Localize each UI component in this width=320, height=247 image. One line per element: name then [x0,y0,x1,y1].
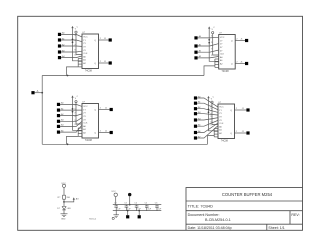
capacitor C2 [114,205,118,211]
svg-text:VCC: VCC [220,37,225,39]
wire U4 input 7 [197,123,218,132]
svg-text:VCC: VCC [83,37,88,39]
IC U3 pin name labels [83,106,96,134]
input port square U4-I2 [194,102,197,105]
power flag dot [128,193,131,196]
output port square U2-O2 [245,62,248,65]
wire U4 output 1 [235,109,247,111]
wire tap to net arrow [64,199,74,202]
title block outline [186,188,303,231]
output port square U4-O2 [246,131,249,134]
wire G1 to bottom rail [127,211,129,216]
wire U2 input 2 [198,44,219,46]
horizontal bus wire to U1/U2 row [42,75,204,77]
wire U3 output 1 [99,109,110,111]
input port square U4-I8 [194,136,197,139]
input port square U1-I3 [58,44,61,47]
junction dots on power wire U1 [72,38,74,40]
IC U4 body [218,104,235,139]
IC U2 pin name labels [220,37,233,65]
wire U1 input 1 [61,34,82,36]
svg-text:Document Number:: Document Number: [188,213,220,217]
IC U1 pin name labels [83,37,96,65]
title block sheet divider [266,224,268,230]
power arrow VCC above U3 [73,97,83,131]
ground port square G2 [138,215,141,218]
svg-text:LED: LED [67,208,72,210]
title block row divider 1 [186,200,303,202]
junction flag wire / top rail [129,204,131,206]
output port square U4-O1 [246,108,249,111]
wire VCC to resistor R1 [63,187,65,195]
wire U2 input 3 [198,50,219,52]
wire U4 input 5 [197,118,218,120]
node A port square [31,91,34,94]
ground symbol (cap bank) [115,211,117,215]
wire U3 input 3 [60,114,82,116]
junction G2 / rail [138,210,140,212]
junction port A / bus [41,92,43,94]
net arrow head [73,197,75,199]
top rail wire (VCC) [113,204,162,206]
input port square U4-I1 [194,96,197,99]
power arrow VCC above U1 [73,27,83,61]
wire U1 bottom pin to bus [67,67,79,76]
capacitor C3 [125,205,129,211]
vertical bus wire net A [41,76,43,145]
input port square U3-I2 [57,109,60,112]
svg-text:Date: 11/18/2011 03:48:04p: Date: 11/18/2011 03:48:04p [188,226,232,230]
svg-text:VCC: VCC [111,191,116,193]
horizontal bus wire to U3/U4 row [42,143,207,145]
output port square U3-O2 [110,131,113,134]
svg-text:CLK: CLK [219,123,224,125]
input port square U2-I2 [194,44,197,47]
diode D1 (LED) [62,207,66,210]
wire D1 to ground [63,210,65,214]
capacitor C4 [135,205,139,211]
capacitor C6 [155,205,159,211]
wire U1 output 2 [99,62,109,64]
input port square U2-I4 [194,56,197,59]
junction U1 drop on bus [67,75,69,77]
svg-text:74C08: 74C08 [221,139,229,142]
wire U1 input 3 [61,45,82,47]
wire G2 to bottom rail [138,211,140,216]
input port square U1-I1 [58,33,61,36]
wire U4 input 1 [197,98,218,107]
wire U4 input 3 [197,109,218,113]
IC U2 body [219,35,236,70]
svg-text:CLK: CLK [220,54,225,56]
wire U3 input 2 [60,109,82,111]
wire power flag to rail [129,196,131,204]
input port square U2-I1 [194,36,197,39]
wire U3 bottom pin to bus [67,136,79,144]
ground symbol (LED branch) [61,213,68,215]
input port square U4-I3 [194,107,197,110]
IC U4 bottom pin stubs [214,129,218,137]
wire U3 input 1 [60,104,82,106]
power port circle (LED branch) [62,184,65,187]
svg-text:Sheet: 1/1: Sheet: 1/1 [268,226,284,230]
IC U4 pin name labels [219,107,232,135]
wire U2 output 2 [235,63,245,65]
input port square U4-I6 [194,125,197,128]
wire R1 to D1 [63,199,65,206]
junction dots on power wire U3 [72,108,74,110]
bottom rail wire (GND) [113,210,162,212]
junction tap to net arrow [63,201,65,203]
power arrow VCC above U2 [209,28,219,62]
wire U4 input 6 [197,121,218,127]
ground port square G1 [126,215,129,218]
svg-text:GND: GND [61,219,66,221]
IC U3 bottom pin stubs [78,128,82,136]
wire U3 input 6 [60,126,82,133]
input port square U4-I7 [194,131,197,134]
svg-text:74C08: 74C08 [85,69,93,72]
svg-text:TITLE: 7CB4D: TITLE: 7CB4D [188,203,213,208]
wire U4 input 4 [197,114,218,115]
wire U4 input 8 [197,126,218,138]
junction U3 drop on bus [67,143,69,145]
input port square U3-I4 [57,120,60,123]
power port circle above U2 [212,31,214,33]
capacitor C5 [145,205,149,211]
sheet border frame [18,16,303,230]
svg-text:74C08: 74C08 [222,70,230,73]
IC U1 bottom pin stubs [78,59,82,67]
junction dots on power wire U4 [208,108,210,110]
junction dots on power wire U2 [208,39,210,41]
power arrow VCC above U4 [209,97,219,131]
wire U3 output 2 [99,132,110,134]
input port square U3-I1 [57,103,60,106]
output port square U2-O1 [245,39,248,42]
IC U3 body [82,104,99,139]
wire U2 input 4 [198,57,219,58]
title block row divider 2 [186,210,303,212]
wire U1 input 2 [61,40,82,42]
svg-text:B-CB-M254-0-1: B-CB-M254-0-1 [205,218,231,222]
svg-text:CLK: CLK [83,123,88,125]
input port square U3-I5 [57,125,60,128]
svg-text:A: A [37,89,39,93]
wire bus riser to U4 bottom pins [208,136,215,145]
input port square U1-I5 [58,56,61,59]
svg-text:VCC: VCC [83,106,88,108]
svg-text:REV:: REV: [291,213,299,217]
IC U2 bottom pin stubs [215,59,219,67]
input port square U3-I6 [57,131,60,134]
wire U2 input 1 [198,36,219,39]
svg-text:M254-4: M254-4 [89,218,97,220]
wire VCC circle to top rail [115,197,117,205]
wire U1 input 4 [61,50,82,53]
junction G1 / rail [127,210,129,212]
IC U1 body [82,34,99,69]
input port square U4-I5 [194,118,197,121]
output port square U1-O2 [109,61,112,64]
resistor R1 [63,195,66,199]
output port square U3-O1 [110,108,113,111]
title block REV divider [289,211,291,225]
power port circle above U4 [211,101,213,103]
power port circle VCC (cap bank) [114,193,117,196]
title block row divider 3 [186,223,303,225]
wire U1 output 1 [99,39,109,41]
svg-text:74C08: 74C08 [85,139,93,142]
output port square U1-O1 [109,38,112,41]
svg-text:VCC: VCC [61,183,66,185]
input port square U1-I2 [58,38,61,41]
wire U4 output 2 [235,132,247,134]
input port square U2-I3 [194,51,197,54]
input port square U1-I4 [58,50,61,53]
input port square U4-I4 [194,112,197,115]
wire U2 output 1 [235,40,245,42]
power port circle above U3 [75,101,77,103]
wire U3 input 5 [60,122,82,127]
svg-text:AO: AO [76,198,79,201]
wire U4 input 2 [197,103,218,109]
svg-text:CLK: CLK [83,53,88,55]
svg-text:COUNTER BUFFER M254: COUNTER BUFFER M254 [222,192,273,197]
wire bus riser to U2 bottom pins [204,66,215,76]
wire U3 input 4 [60,118,82,121]
svg-text:VCC: VCC [219,107,224,109]
wire U1 input 5 [61,56,82,58]
input port square U3-I3 [57,114,60,117]
wire from port A to vertical bus [35,92,43,94]
power port circle above U1 [75,31,77,33]
